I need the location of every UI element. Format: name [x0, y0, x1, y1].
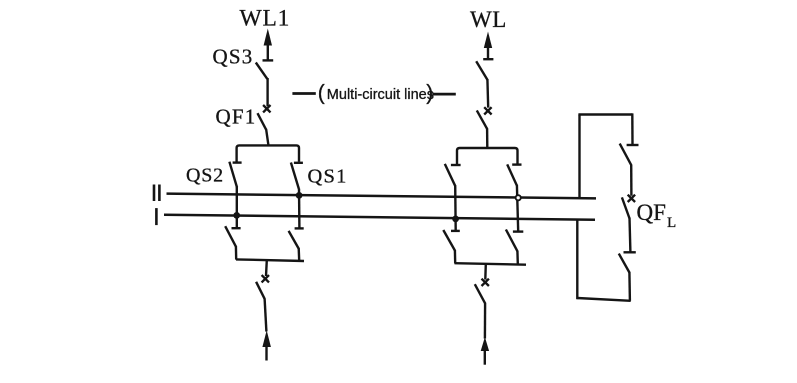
label QFL: [637, 200, 677, 231]
lower breaker left bay: [256, 275, 269, 299]
right bay lower-right disconnector: [506, 230, 523, 252]
wire QS3 to QF1: [266, 78, 268, 106]
open junction ring right bay on bus II: [516, 195, 521, 200]
right bay upper-right disconnector: [507, 164, 521, 185]
coupler top disconnector: [620, 144, 639, 166]
wire bar to lower breaker right bay: [484, 264, 487, 280]
svg-text:(: (: [318, 82, 325, 105]
wire breaker to bar right bay: [486, 129, 489, 149]
bottom bar left bay: [236, 259, 304, 261]
busbar II: [167, 194, 597, 199]
disconnector QS2: [229, 162, 241, 188]
label QS3: [213, 45, 254, 69]
svg-text:QS3: QS3: [213, 45, 254, 69]
label QF1: [216, 105, 257, 129]
junction dot right bay on bus I: [452, 216, 459, 223]
disconnector right bay top: [476, 59, 493, 80]
breaker QFL: [622, 195, 635, 219]
node label II: [154, 185, 159, 202]
wire right bay lower-right blade to bar: [516, 251, 519, 264]
svg-text:QS1: QS1: [308, 166, 348, 188]
top bar left bay: [237, 145, 299, 161]
wire QFL to bottom disconnector: [628, 218, 631, 252]
bottom bar right bay: [455, 263, 527, 265]
svg-text:WL1: WL1: [240, 5, 291, 31]
wire bus II up to coupler top: [578, 115, 580, 199]
disconnector QS1: [291, 163, 303, 190]
top bar right bay: [457, 148, 518, 164]
wire right bay left stub to bus I: [454, 185, 457, 231]
wire right bay right stub to bus II: [517, 185, 518, 232]
coupler bottom disconnector: [619, 252, 636, 272]
note left dash: [292, 92, 315, 95]
junction dot QS2 on bus I: [233, 212, 240, 219]
right bay lower-left disconnector: [443, 230, 460, 251]
right bay upper-left disconnector: [445, 164, 461, 186]
wire QS1 stub to bus II: [298, 189, 301, 228]
wire bottom disconnector to corner: [628, 272, 631, 301]
wire coupler left drop to bus I: [576, 220, 578, 299]
feeder label WL1: [240, 5, 291, 31]
arrow to WL: [484, 32, 492, 60]
lower-right disconnector left bay: [289, 228, 304, 248]
breaker right bay: [477, 107, 492, 129]
wire to right bay breaker: [486, 79, 489, 108]
wire top disconnector to QFL: [630, 165, 633, 196]
wire bar to lower breaker left bay: [265, 260, 268, 276]
note right dash: [432, 93, 456, 96]
wire QS2 stub to bus I: [236, 187, 238, 228]
lower-left disconnector left bay: [225, 226, 240, 246]
wire lower-left blade to bar: [235, 246, 238, 260]
svg-text:QF1: QF1: [216, 105, 257, 129]
lower breaker right bay: [475, 279, 489, 304]
svg-text:QF: QF: [637, 200, 666, 225]
svg-text:L: L: [667, 215, 676, 231]
incoming line arrow right bay: [481, 303, 489, 365]
breaker QF1: [258, 105, 271, 130]
label QS2: [186, 165, 224, 187]
node label I: [155, 208, 158, 225]
svg-text:WL: WL: [470, 7, 507, 32]
svg-text:QS2: QS2: [186, 165, 224, 187]
feeder label WL: [470, 7, 507, 32]
wire QF1 to bar: [266, 129, 268, 145]
junction dot QS1 on bus II: [296, 192, 303, 199]
wire coupler top horizontal: [578, 113, 632, 115]
wire coupler right drop: [631, 113, 634, 144]
note text multi-circuit lines: [318, 82, 434, 105]
busbar I: [164, 215, 595, 220]
svg-text:): ): [426, 82, 433, 105]
label QS1: [308, 166, 348, 188]
wire right bay lower-left blade to bar: [454, 250, 457, 263]
incoming line arrow left bay: [262, 298, 271, 360]
arrow to WL1: [264, 29, 272, 61]
svg-text:Multi-circuit lines: Multi-circuit lines: [327, 87, 434, 103]
wire coupler bottom horizontal: [577, 298, 630, 301]
wire lower-right blade to bar: [298, 248, 301, 261]
disconnector QS3: [256, 60, 273, 78]
